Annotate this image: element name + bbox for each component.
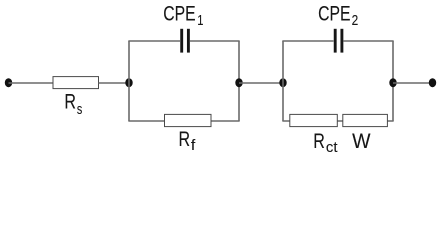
left terminal dot — [5, 78, 12, 87]
svg-text:CPE: CPE — [318, 2, 350, 25]
node B (junction dot) — [235, 78, 242, 87]
wire: left terminal to Rs — [9, 82, 54, 84]
wire: loop2 left vertical — [282, 41, 284, 121]
label CPE1 — [163, 2, 203, 29]
svg-text:1: 1 — [197, 13, 203, 29]
wire: loop1 bottom segment — [128, 120, 239, 122]
svg-text:2: 2 — [352, 13, 359, 29]
node D (junction dot) — [389, 78, 396, 87]
label Rf — [179, 128, 197, 154]
resistor Rf — [165, 114, 212, 126]
label Rct — [313, 130, 337, 156]
svg-text:ct: ct — [326, 140, 338, 156]
right terminal dot — [429, 78, 436, 87]
wire: node D to right terminal — [393, 82, 433, 84]
svg-text:R: R — [313, 130, 325, 153]
wire: loop2 right vertical — [392, 41, 394, 121]
wire: Rs to node A — [99, 82, 130, 84]
svg-text:W: W — [352, 130, 371, 153]
node A (junction dot) — [125, 78, 132, 87]
label Rs — [64, 91, 82, 118]
wire: loop2 top left segment — [282, 40, 333, 42]
node C (junction dot) — [279, 78, 286, 87]
capacitor CPE1 — [182, 29, 189, 53]
resistor Rct — [290, 114, 338, 126]
label CPE2 — [318, 2, 358, 29]
svg-text:R: R — [179, 128, 191, 151]
svg-text:CPE: CPE — [163, 2, 195, 25]
resistor Rs — [53, 77, 99, 89]
wire: loop1 left vertical — [128, 41, 130, 121]
wire: loop1 top left segment — [128, 40, 180, 42]
resistor W (Warburg element) — [343, 114, 388, 126]
svg-text:R: R — [64, 91, 76, 114]
svg-text:s: s — [77, 102, 82, 118]
wire: loop1 right vertical — [238, 41, 240, 121]
wire: loop2 bottom segment — [282, 120, 393, 122]
wire: loop2 top right segment — [344, 40, 394, 42]
capacitor CPE2 — [335, 29, 342, 53]
wire: loop1 top right segment — [190, 40, 240, 42]
wire: node B to node C — [239, 82, 283, 84]
